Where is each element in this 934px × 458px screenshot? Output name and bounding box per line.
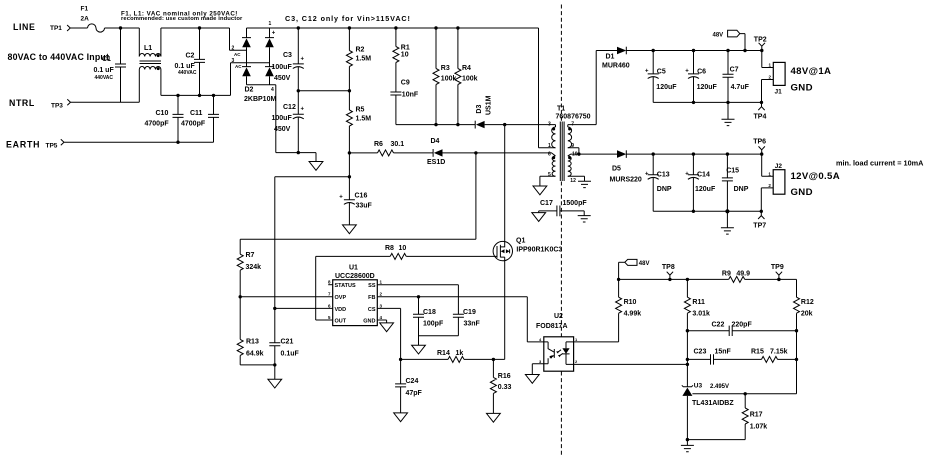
svg-text:OUT: OUT: [335, 319, 347, 325]
svg-text:+: +: [645, 69, 649, 75]
svg-text:0.1 uF: 0.1 uF: [175, 63, 196, 70]
svg-text:D2: D2: [245, 87, 254, 94]
svg-text:1: 1: [548, 143, 551, 149]
svg-text:Q1: Q1: [516, 237, 525, 244]
svg-text:R3: R3: [441, 65, 450, 72]
power flag 48V bottom: [619, 259, 650, 279]
svg-text:+: +: [339, 194, 343, 200]
resistor R15 7.15k: [751, 349, 798, 363]
svg-text:U1: U1: [349, 265, 358, 272]
node junction C1 top: [119, 26, 122, 29]
svg-text:GND: GND: [791, 187, 813, 198]
resistor R7 324k: [237, 252, 261, 297]
svg-text:C3: C3: [283, 52, 292, 59]
svg-text:R1: R1: [401, 44, 410, 51]
svg-text:0.33: 0.33: [498, 384, 512, 391]
svg-text:R11: R11: [692, 299, 705, 306]
node HV mid junction: [297, 89, 300, 92]
svg-text:3.01k: 3.01k: [692, 311, 710, 318]
svg-text:120uF: 120uF: [656, 84, 677, 91]
svg-text:min. load current = 10mA: min. load current = 10mA: [836, 159, 924, 168]
svg-text:NTRL: NTRL: [9, 98, 35, 108]
resistor R12 20k: [794, 297, 814, 394]
svg-text:440VAC: 440VAC: [95, 75, 114, 81]
svg-text:12V@0.5A: 12V@0.5A: [791, 171, 841, 182]
svg-text:TP6: TP6: [753, 139, 766, 146]
wire T1 pin7 to D1: [568, 51, 617, 128]
svg-text:47pF: 47pF: [406, 390, 423, 397]
svg-text:48V: 48V: [639, 261, 650, 267]
wire fuse to L1: [105, 27, 140, 29]
svg-text:10: 10: [401, 51, 409, 58]
svg-text:4.7uF: 4.7uF: [731, 84, 750, 91]
wire NTRL: [71, 101, 140, 103]
wire T1 pin12 to ground: [568, 176, 585, 181]
svg-text:TP4: TP4: [754, 114, 767, 121]
svg-text:100pF: 100pF: [423, 320, 444, 327]
isolation barrier dashed line: [560, 5, 562, 457]
svg-text:C24: C24: [406, 378, 419, 385]
svg-text:C17: C17: [540, 200, 553, 207]
svg-text:UCC28600D: UCC28600D: [335, 273, 375, 280]
wire U2 pin3 to ground: [532, 364, 544, 375]
svg-text:49.9: 49.9: [736, 270, 750, 277]
svg-text:U2: U2: [554, 313, 563, 320]
svg-text:MURS220: MURS220: [610, 176, 642, 183]
svg-text:760876750: 760876750: [556, 114, 591, 121]
wire 48V gnd rail: [653, 101, 761, 103]
svg-text:TP9: TP9: [771, 264, 784, 271]
node CS junction: [399, 358, 402, 361]
svg-text:MUR460: MUR460: [602, 62, 630, 69]
svg-text:TP8: TP8: [662, 264, 675, 271]
svg-text:1.5M: 1.5M: [356, 116, 372, 123]
svg-text:+: +: [301, 56, 305, 62]
svg-text:C9: C9: [401, 80, 410, 87]
svg-text:SS: SS: [368, 283, 376, 289]
wire R14 row: [401, 358, 448, 360]
ground primary U1: [380, 323, 394, 332]
svg-text:C13: C13: [657, 171, 670, 178]
svg-text:+: +: [685, 69, 689, 75]
svg-text:R5: R5: [356, 107, 365, 114]
svg-text:2: 2: [232, 46, 235, 52]
svg-text:100uF: 100uF: [272, 115, 293, 122]
wire to J2 pin1: [762, 154, 774, 176]
ground secondary 12V: [721, 209, 734, 234]
svg-text:CS: CS: [368, 307, 376, 313]
svg-text:GND: GND: [363, 319, 375, 325]
wire VDD pin: [275, 307, 333, 309]
ground primary R13 C21: [268, 363, 282, 388]
power flag 48V top: [713, 30, 747, 52]
svg-text:33nF: 33nF: [464, 320, 481, 327]
svg-text:recommended: use custom made i: recommended: use custom made inductor: [121, 16, 243, 22]
svg-text:2.495V: 2.495V: [710, 384, 729, 390]
capacitor C19 33nF: [419, 309, 481, 336]
node OVP divider junction: [239, 295, 242, 298]
node switch node junction: [503, 123, 506, 126]
test point TP1: [50, 25, 70, 32]
wire 48V rail: [626, 50, 762, 52]
svg-text:1.5M: 1.5M: [356, 56, 372, 63]
svg-text:4700pF: 4700pF: [181, 120, 206, 127]
wire T1 pin9 jog: [568, 148, 579, 154]
wire bus to bridge AC3: [231, 62, 270, 64]
svg-text:1500pF: 1500pF: [563, 200, 588, 207]
capacitor C21 0.1uF: [269, 308, 299, 365]
svg-text:DNP: DNP: [657, 186, 672, 193]
wire FB pin: [377, 296, 527, 298]
svg-text:C10: C10: [156, 110, 169, 117]
svg-text:100k: 100k: [462, 75, 478, 82]
svg-text:6: 6: [548, 151, 551, 157]
svg-text:L1: L1: [144, 45, 152, 52]
svg-text:D4: D4: [431, 138, 440, 145]
svg-text:120uF: 120uF: [695, 186, 716, 193]
wire FB drop to opto: [527, 297, 544, 342]
wire 12V rail: [626, 153, 761, 155]
resistor R13 64.9k: [237, 297, 275, 365]
svg-text:0.1uF: 0.1uF: [281, 350, 300, 357]
resistor R1 10: [393, 26, 410, 92]
svg-text:10nF: 10nF: [402, 91, 419, 98]
svg-text:+: +: [301, 107, 305, 113]
wire LINE to bridge AC2: [230, 28, 247, 50]
svg-text:100k: 100k: [441, 75, 457, 82]
svg-text:48V: 48V: [713, 32, 724, 38]
capacitor C12 100uF 450V: [272, 91, 305, 155]
svg-text:VDD: VDD: [335, 307, 347, 313]
capacitor C6 120uF: [685, 49, 717, 103]
test point TP4: [754, 101, 767, 121]
svg-text:4700pF: 4700pF: [145, 120, 170, 127]
diode D1 MUR460: [602, 47, 630, 70]
wire 12V gnd rail: [653, 210, 761, 212]
resistor R8 10: [385, 245, 497, 259]
svg-text:C18: C18: [423, 309, 436, 316]
test point TP9: [771, 264, 784, 281]
svg-text:R14: R14: [437, 350, 450, 357]
ground secondary U3: [681, 438, 694, 452]
svg-text:450V: 450V: [274, 126, 291, 133]
svg-text:100uF: 100uF: [272, 64, 293, 71]
capacitor C3 100uF 450V: [272, 26, 305, 91]
svg-text:10: 10: [399, 245, 407, 252]
capacitor C16 33uF: [339, 153, 372, 234]
wire feedback rail: [619, 278, 729, 280]
svg-text:450V: 450V: [274, 75, 291, 82]
svg-text:3: 3: [548, 122, 551, 128]
svg-text:R2: R2: [356, 47, 365, 54]
svg-text:R17: R17: [750, 412, 763, 419]
capacitor C2 0.1uF 440VAC: [175, 26, 206, 97]
ground secondary T1 pin12: [578, 181, 591, 187]
svg-text:LINE: LINE: [13, 22, 35, 32]
wire bridge minus to ground: [276, 153, 316, 162]
svg-text:4: 4: [271, 87, 274, 93]
ground secondary 48V: [722, 101, 735, 126]
wire U2 pin2 to TL431: [574, 363, 688, 365]
svg-text:TP1: TP1: [50, 25, 62, 32]
diode D4 ES1D: [427, 138, 556, 166]
resistor R3 100k: [433, 26, 456, 124]
ground primary U2: [525, 375, 539, 384]
wire VDD tap: [275, 177, 350, 309]
wire EARTH: [64, 141, 213, 143]
capacitor C18 100pF: [413, 297, 444, 345]
capacitor C23 15nF: [686, 349, 762, 365]
wire clamp rail: [396, 124, 475, 126]
wire aux to R7 loop: [240, 153, 476, 254]
svg-text:+: +: [685, 171, 689, 177]
svg-text:DNP: DNP: [734, 186, 749, 193]
svg-text:2KBP10M: 2KBP10M: [244, 96, 276, 103]
svg-text:D5: D5: [612, 166, 621, 173]
capacitor C14 120uF: [685, 152, 716, 211]
svg-text:OVP: OVP: [335, 295, 347, 301]
svg-text:12: 12: [570, 178, 576, 184]
svg-text:5: 5: [548, 172, 551, 178]
svg-text:R15: R15: [751, 349, 764, 356]
diode D5 MURS220: [610, 150, 642, 183]
resistor R10 4.99k: [574, 279, 642, 342]
svg-text:IPP90R1K0C3: IPP90R1K0C3: [516, 247, 562, 254]
transformer T1 760876750: [548, 106, 591, 185]
svg-text:+: +: [272, 31, 276, 37]
wire Q1 source down: [504, 261, 506, 360]
svg-text:7.15k: 7.15k: [770, 349, 788, 356]
wire OVP pin: [240, 296, 333, 298]
ground primary at bridge: [309, 162, 323, 171]
svg-text:1: 1: [269, 21, 272, 27]
svg-text:20k: 20k: [801, 311, 813, 318]
resistor R14 1k: [437, 350, 505, 362]
svg-text:R9: R9: [722, 270, 731, 277]
diode D3 US1M: [475, 95, 555, 128]
test point TP7: [753, 210, 766, 230]
svg-text:1k: 1k: [456, 350, 464, 357]
svg-text:C19: C19: [463, 309, 476, 316]
svg-text:C16: C16: [355, 193, 368, 200]
svg-text:J1: J1: [775, 88, 783, 95]
svg-text:EARTH: EARTH: [6, 140, 40, 150]
ground primary C18: [412, 345, 426, 354]
svg-text:TP7: TP7: [753, 223, 766, 230]
svg-text:2A: 2A: [81, 16, 90, 23]
svg-text:U3: U3: [694, 382, 703, 389]
svg-text:D3: D3: [476, 105, 483, 114]
svg-text:C11: C11: [190, 110, 203, 117]
svg-text:ES1D: ES1D: [427, 159, 445, 166]
wire LINE to fuse: [71, 27, 88, 29]
capacitor C9 10nF: [390, 80, 418, 125]
svg-text:15nF: 15nF: [715, 349, 732, 356]
svg-text:TL431AIDBZ: TL431AIDBZ: [692, 400, 734, 407]
capacitor C7 4.7uF: [723, 49, 750, 103]
resistor R11 3.01k: [684, 278, 710, 387]
svg-text:+: +: [645, 171, 649, 177]
ground primary T1 pin5: [533, 186, 547, 195]
wire OUT pin to R8: [316, 256, 391, 320]
resistor R17 1.07k: [687, 392, 767, 440]
connector J2: [761, 163, 785, 211]
wire SS pin to C19: [377, 285, 458, 315]
svg-text:R10: R10: [624, 299, 637, 306]
svg-text:US1M: US1M: [485, 95, 492, 115]
resistor R4 100k: [455, 26, 478, 124]
bridge rectifier D2 2KBP10M: [232, 21, 277, 153]
svg-text:C15: C15: [726, 168, 739, 175]
svg-text:33uF: 33uF: [356, 203, 373, 210]
resistor R2 1.5M: [346, 26, 371, 91]
svg-text:J2: J2: [775, 163, 783, 170]
shunt regulator U3 TL431AIDBZ: [682, 382, 797, 439]
svg-text:T1: T1: [557, 106, 565, 113]
svg-text:F1: F1: [81, 6, 89, 13]
svg-text:R12: R12: [801, 299, 814, 306]
svg-text:R4: R4: [462, 65, 471, 72]
wire T1 pin5 to ground: [540, 176, 556, 186]
wire C2 bottom bus: [161, 63, 231, 96]
transistor Q1 IPP90R1K0C3: [493, 237, 562, 261]
svg-text:C2: C2: [186, 53, 195, 60]
svg-text:120uF: 120uF: [697, 84, 718, 91]
svg-text:GND: GND: [791, 83, 813, 94]
ground primary C24: [394, 413, 408, 422]
wire HV to T1 pin1: [539, 28, 556, 148]
wire HV top bus: [247, 27, 539, 29]
svg-text:30.1: 30.1: [391, 141, 405, 148]
node R16 junction: [492, 358, 495, 361]
wire CS pin: [377, 308, 400, 359]
resistor R5 1.5M: [346, 91, 371, 153]
svg-text:48V@1A: 48V@1A: [791, 66, 832, 77]
capacitor C15 DNP: [722, 152, 749, 211]
svg-text:AC: AC: [235, 64, 242, 69]
svg-text:1.07k: 1.07k: [750, 424, 768, 431]
wire HV mid to R2 R5: [298, 90, 349, 92]
svg-text:R13: R13: [246, 338, 259, 345]
svg-text:C5: C5: [657, 68, 666, 75]
svg-text:TP2: TP2: [754, 36, 767, 43]
svg-text:80VAC to 440VAC Input: 80VAC to 440VAC Input: [8, 52, 110, 62]
svg-text:C6: C6: [697, 68, 706, 75]
test point TP8: [662, 264, 675, 281]
capacitor C13 DNP: [645, 152, 672, 211]
svg-text:FB: FB: [368, 295, 375, 301]
resistor R6 30.1: [374, 141, 433, 156]
wire VDD aux rail: [349, 152, 377, 154]
capacitor C10 4700pF: [145, 94, 184, 144]
ground primary R16: [487, 413, 501, 422]
IC U1 UCC28600D: [328, 265, 383, 326]
capacitor C11 4700pF: [181, 94, 219, 142]
svg-text:D1: D1: [606, 53, 615, 60]
wire drain drop: [504, 125, 506, 242]
test point TP6: [753, 139, 766, 156]
svg-text:TP5: TP5: [46, 143, 58, 150]
test point TP2: [754, 36, 767, 52]
svg-text:C14: C14: [697, 171, 710, 178]
svg-text:4.99k: 4.99k: [624, 311, 642, 318]
svg-text:220pF: 220pF: [732, 321, 753, 328]
svg-text:440VAC: 440VAC: [178, 70, 197, 76]
svg-text:C3, C12 only for Vin>115VAC!: C3, C12 only for Vin>115VAC!: [285, 14, 411, 23]
svg-text:R16: R16: [498, 373, 511, 380]
svg-text:324k: 324k: [246, 264, 262, 271]
connector J1: [762, 62, 786, 102]
wire 12V rail left: [568, 154, 617, 156]
svg-text:0.1 uF: 0.1 uF: [94, 67, 115, 74]
capacitor C1 0.1uF 440VAC: [94, 28, 127, 102]
capacitor C17 1500pF: [532, 200, 591, 222]
svg-text:C23: C23: [694, 349, 707, 356]
svg-text:R6: R6: [374, 141, 383, 148]
capacitor C24 47pF: [395, 359, 422, 413]
resistor R16 0.33: [490, 359, 511, 413]
optocoupler U2 FOD817A: [536, 313, 578, 371]
resistor R9 49.9: [722, 270, 797, 297]
svg-text:C12: C12: [283, 104, 296, 111]
svg-text:R8: R8: [385, 245, 394, 252]
wire to J1 pin1: [762, 51, 774, 68]
test point TP5: [46, 139, 65, 149]
svg-text:64.9k: 64.9k: [246, 350, 264, 357]
node aux OVP junction: [474, 151, 477, 154]
wire GND pin: [377, 320, 386, 323]
inductor L1 common-mode choke: [139, 28, 229, 102]
svg-text:STATUS: STATUS: [335, 283, 357, 289]
svg-text:C7: C7: [730, 66, 739, 73]
test point TP3: [51, 99, 71, 109]
svg-text:C22: C22: [712, 321, 725, 328]
svg-text:TP3: TP3: [51, 103, 63, 110]
svg-text:AC: AC: [234, 52, 241, 57]
capacitor C22 220pF: [686, 321, 799, 336]
fuse F1 2A: [81, 6, 105, 33]
svg-text:FOD817A: FOD817A: [536, 323, 568, 330]
svg-text:C21: C21: [281, 338, 294, 345]
capacitor C5 120uF: [645, 49, 677, 103]
svg-text:R7: R7: [246, 252, 255, 259]
